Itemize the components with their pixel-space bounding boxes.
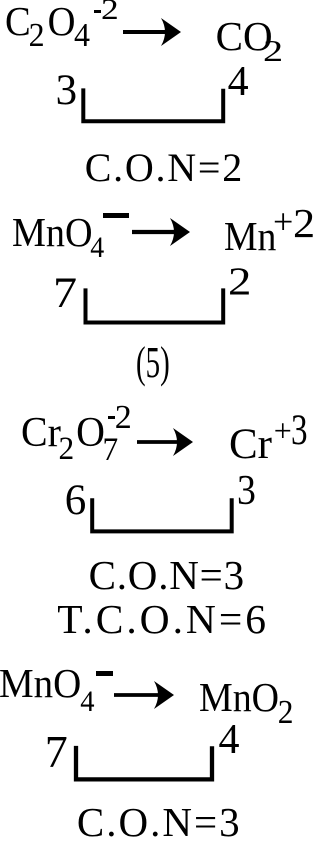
superscript 2 of Cr2O7 (115, 401, 132, 435)
number 7 (53, 272, 77, 315)
number 7b (45, 729, 68, 775)
label (5) (136, 340, 170, 385)
formula Cr2O7 (21, 412, 118, 467)
arrow 2 (132, 217, 190, 247)
formula MnO4 (12, 212, 104, 264)
formula C2O4 (5, 1, 90, 53)
bracket 2 (81, 286, 228, 327)
arrow 3 (137, 427, 193, 457)
label C.O.N=2 (85, 148, 244, 188)
superscript +3 of Cr (274, 409, 313, 452)
product Cr (229, 423, 272, 466)
number 2 (228, 262, 251, 301)
formula MnO4 (2nd) (0, 663, 95, 717)
number 6 (65, 479, 87, 522)
superscript bar of MnO4 (2nd) (96, 671, 113, 676)
bracket 4 (74, 744, 218, 784)
superscript 2 of C2O4 (101, 0, 119, 25)
superscript bar of MnO4 (103, 213, 129, 218)
superscript +2 of Mn (273, 203, 313, 244)
superscript minus of C2O4 (94, 10, 101, 13)
superscript minus of Cr2O7 (108, 416, 115, 419)
number 4b (219, 719, 240, 761)
arrow 1 (123, 17, 181, 47)
number 3 (56, 69, 78, 112)
product CO2 (216, 16, 278, 66)
label T.C.O.N=6 (57, 599, 269, 641)
product MnO2 (199, 677, 293, 731)
arrow 4 (114, 680, 174, 710)
label C.O.N=3 (bottom) (77, 802, 242, 842)
label C.O.N=3 (89, 555, 245, 596)
product Mn (224, 216, 276, 257)
bracket 1 (79, 86, 228, 126)
number 3b (237, 470, 256, 512)
bracket 3 (88, 496, 236, 536)
number 4 (228, 61, 249, 103)
